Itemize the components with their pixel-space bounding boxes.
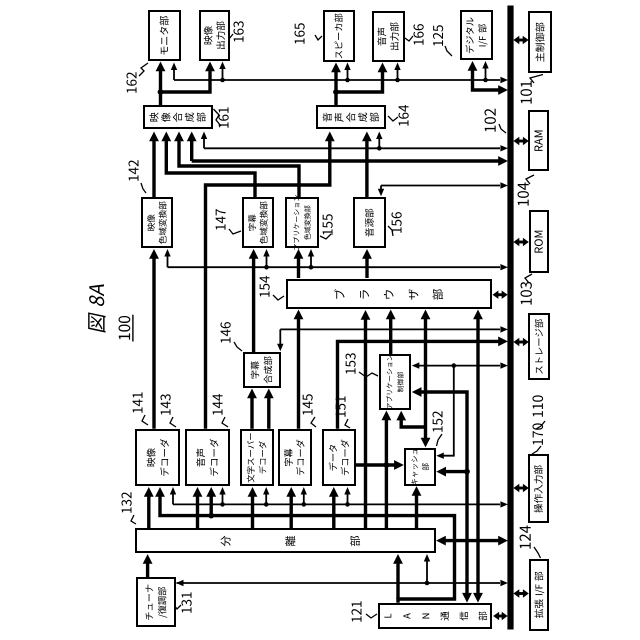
- bus double arrow to storage: [518, 341, 524, 344]
- wire branch appctl-bus line to cache bottom: [441, 366, 454, 456]
- block cache 152: [404, 448, 436, 486]
- leader 141: [142, 415, 148, 425]
- reference numeral 156: [392, 227, 402, 232]
- reference numeral 164: [399, 120, 409, 125]
- leader 162: [139, 63, 148, 76]
- block app color conv 155: [285, 197, 319, 249]
- junction dot on thin compositor line: [377, 146, 382, 151]
- wire bus to sound source right edge (thin): [381, 185, 500, 187]
- wire data decoder to cache: [356, 463, 398, 466]
- wire subtitle decoder to browser: [297, 316, 300, 429]
- reference numeral 163: [234, 36, 244, 41]
- block tuner 131: [136, 578, 176, 628]
- wire sound source to audio compositor: [365, 138, 368, 197]
- wire browser to app color conversion: [297, 255, 300, 278]
- wire bus to output devices (line L1): [174, 79, 500, 81]
- text of main controller 101: [535, 53, 544, 62]
- block speaker 165: [323, 11, 356, 63]
- bus double arrow to ROM: [518, 241, 524, 244]
- wire branch line B to decoder: [222, 493, 224, 504]
- junction dot on line B: [220, 502, 225, 507]
- leader 154: [273, 295, 284, 300]
- text of video output 163: [204, 36, 213, 45]
- wire demux to data decoder: [332, 494, 335, 529]
- bus double arrow to main controller: [518, 39, 523, 42]
- bus double arrow to LAN comm: [498, 615, 503, 618]
- wire branch L2 to subtitle color conversion: [266, 255, 268, 267]
- reference numeral 166: [414, 39, 424, 44]
- wire demux to text-super decoder: [251, 494, 254, 529]
- block operation input 110: [528, 455, 548, 524]
- wire audio decoder to audio compositor: [206, 138, 330, 429]
- block extension I/F 124: [529, 559, 550, 631]
- leader 110: [536, 421, 545, 429]
- wire branch LAN line to demux input: [396, 561, 399, 599]
- wire bus to color conversion blocks (line L2): [168, 266, 501, 268]
- reference numeral 145: [303, 409, 313, 414]
- wire branch line B to decoder: [303, 493, 305, 504]
- bus double arrow to operation input: [518, 487, 524, 490]
- reference numeral 124: [520, 543, 531, 549]
- leader 156: [388, 226, 393, 236]
- block monitor 162: [148, 11, 182, 62]
- wire branch line B to decoder: [347, 493, 349, 504]
- text of text-super decoder 144: [247, 475, 255, 483]
- block demux 132: [135, 529, 435, 554]
- leader 153: [359, 372, 378, 377]
- text of video color conv 142: [147, 223, 155, 231]
- block LAN comm 121: [378, 603, 492, 629]
- wire tuner to demux: [146, 561, 149, 578]
- wire LAN to demux and AV decoders (line A): [160, 494, 455, 603]
- leader 142: [141, 183, 146, 193]
- text of app color conv 155: [294, 244, 299, 250]
- junction dot L2 app branch: [309, 265, 314, 270]
- wire video decoder to video color conversion: [152, 255, 155, 429]
- junction dot on LAN-appctl line at cache branch: [464, 469, 470, 475]
- wire branch L1 to output block: [347, 69, 349, 81]
- reference numeral 155: [323, 229, 333, 234]
- text of cache 152: [411, 479, 417, 485]
- wire data decoder to bus: [338, 341, 501, 428]
- wire demux to bus bidirectional: [442, 539, 501, 542]
- wire cache to browser bidirectional: [424, 316, 427, 442]
- text of ROM: [535, 247, 543, 253]
- block browser 154: [286, 280, 493, 310]
- leader 104: [526, 175, 534, 184]
- junction dot on line L1: [483, 78, 488, 83]
- leader 103: [525, 274, 532, 283]
- reference numeral 131: [182, 607, 192, 612]
- wire demux to browser: [364, 317, 367, 529]
- reference numeral 102: [485, 126, 496, 132]
- reference numeral 144: [213, 409, 223, 414]
- figure title 図 8A: [88, 312, 105, 332]
- wire LAN to application controller and cache: [418, 392, 467, 596]
- text of tuner 131: [145, 612, 152, 620]
- leader 152: [437, 434, 443, 446]
- reference numeral 162: [127, 87, 137, 92]
- leader 161: [214, 109, 222, 126]
- text of subtitle color conv 147: [248, 223, 256, 230]
- text of video decoder 141: [147, 458, 156, 467]
- junction dot on line L1: [220, 78, 225, 83]
- wire digital I/F to bus bidirectional: [473, 68, 501, 90]
- reference numeral 141: [133, 407, 143, 412]
- wire app color conversion to video compositor: [179, 138, 299, 197]
- text of storage 103: [536, 366, 543, 373]
- text of speaker 165: [336, 51, 343, 58]
- reference numeral 103: [521, 299, 532, 305]
- block audio compositor 164: [316, 105, 386, 130]
- block storage 103: [528, 314, 550, 381]
- leader 144: [222, 417, 228, 427]
- junction dot on line L1: [395, 78, 400, 83]
- block audio decoder 143: [185, 429, 230, 487]
- reference numeral 110: [533, 411, 543, 417]
- wire bus to application controller (thin): [418, 365, 500, 367]
- wire branch to video output: [161, 68, 211, 92]
- wire demux to cache: [415, 492, 418, 529]
- wire video color conversion to video compositor: [152, 138, 155, 197]
- leader 131: [174, 605, 181, 609]
- wire application controller tap to cache-browser line: [401, 417, 425, 427]
- block video compositor 161: [143, 105, 213, 130]
- leader 166: [405, 36, 413, 41]
- reference numeral 152: [433, 426, 443, 431]
- block audio output 166: [372, 11, 405, 62]
- wire branch L1 to output block: [485, 67, 487, 80]
- text of subtitle decoder 145: [284, 458, 292, 466]
- wire branch L1 to output block: [222, 68, 224, 81]
- wire branch tuner line to demux left edge: [426, 560, 428, 583]
- leader 145: [311, 417, 316, 427]
- leader 170: [532, 446, 541, 454]
- reference numeral 153: [346, 368, 356, 373]
- wire branch line A to audio decoder: [209, 494, 212, 516]
- wire demux to application controller: [385, 417, 388, 529]
- junction dot on line B: [302, 502, 307, 507]
- text of RAM: [534, 145, 542, 151]
- reference numeral 132: [122, 507, 132, 512]
- reference numeral 101: [521, 98, 532, 104]
- bus double arrow to browser: [497, 293, 502, 296]
- leader 147: [229, 229, 241, 234]
- reference numeral 147: [216, 224, 226, 229]
- system bus 102: [507, 6, 513, 630]
- text of data decoder 151: [329, 462, 337, 470]
- wire branch L2 to app color conversion: [310, 255, 312, 267]
- leader 132: [131, 515, 136, 524]
- wire bus to all decoders (line B): [173, 503, 500, 505]
- text of extension I/F 124: [534, 609, 543, 618]
- text of audio decoder 143: [196, 458, 205, 467]
- block text-super decoder 144: [240, 429, 274, 487]
- wire branch L1 to output block: [397, 69, 399, 81]
- reference numeral 165: [295, 38, 305, 43]
- block video output 163: [199, 10, 230, 61]
- block subtitle decoder 145: [278, 429, 312, 487]
- wire branch to audio output: [336, 69, 383, 92]
- wire branch line B to decoder: [265, 493, 267, 504]
- text of browser 154: [334, 289, 344, 299]
- wire bus to subtitle compositor (thin): [279, 329, 281, 345]
- leader 102: [499, 124, 506, 133]
- wire bus to video and audio compositors (thin line): [204, 147, 500, 149]
- reference numeral 154: [260, 291, 270, 296]
- block digital I/F 125: [460, 11, 493, 61]
- wire application controller to browser: [389, 318, 392, 354]
- wire subtitle decoder to subtitle compositor: [267, 395, 270, 429]
- text of application controller 153: [387, 403, 392, 409]
- leader 124: [534, 547, 541, 558]
- reference numeral 143: [161, 409, 171, 414]
- leader 164: [388, 116, 398, 121]
- junction dot on line B: [345, 502, 350, 507]
- bus double arrow to RAM: [518, 140, 524, 143]
- text of LAN comm 121: [384, 614, 391, 618]
- text of digital I/F 125: [465, 45, 473, 53]
- leader 146: [234, 342, 242, 351]
- text of subtitle compositor 146: [251, 371, 259, 379]
- wire audio compositor to speaker: [334, 69, 337, 105]
- block RAM: [528, 110, 548, 171]
- block data decoder 151: [322, 429, 356, 487]
- reference numeral 146: [221, 337, 231, 342]
- junction dot video output branch: [158, 89, 164, 95]
- wire demux to subtitle decoder: [290, 494, 293, 529]
- wire branch thin line to audio compositor: [378, 137, 380, 148]
- reference numeral 142: [129, 175, 139, 180]
- reference numeral 151: [336, 411, 346, 416]
- text of operation input 110: [534, 504, 543, 513]
- leader 125: [445, 46, 452, 56]
- text of audio output 166: [377, 37, 386, 46]
- block ROM: [529, 210, 549, 274]
- wire subtitle color conversion to video compositor: [166, 138, 255, 197]
- block subtitle color conv 147: [242, 197, 274, 249]
- reference numeral 161: [219, 122, 229, 127]
- wire branch to cache bottom: [441, 470, 467, 473]
- leader 151: [345, 419, 350, 428]
- junction dot data-decoder line crossing demux-appctl line: [384, 462, 390, 468]
- block video color conv 142: [141, 197, 173, 249]
- wire bus to video compositor (thick riser): [192, 159, 500, 162]
- wire browser to sound source: [365, 255, 368, 278]
- wire bus to tuner (thin) with branch to demux: [177, 582, 501, 584]
- text of sound source 156: [365, 228, 374, 237]
- junction dot on appctl-bus line: [452, 363, 457, 368]
- reference numeral system 100: [119, 333, 130, 339]
- block subtitle compositor 146: [243, 352, 281, 388]
- junction dot on tuner line: [425, 581, 430, 586]
- block video decoder 141: [135, 429, 180, 487]
- reference numeral 104: [518, 200, 529, 206]
- reference numeral 121: [352, 616, 362, 621]
- wire text-super decoder to subtitle compositor: [250, 395, 253, 429]
- reference numeral 125: [433, 40, 443, 45]
- wire subtitle compositor to subtitle color conversion: [252, 255, 255, 352]
- leader 163: [224, 34, 233, 39]
- text of demux 132: [221, 536, 231, 546]
- wire demux to audio decoder: [196, 494, 199, 529]
- junction dot on line B: [264, 502, 269, 507]
- bus double arrow to extension I/F: [518, 592, 524, 595]
- leader 165: [315, 35, 322, 40]
- wire LAN to browser bidirectional: [476, 318, 479, 596]
- junction dot audio output branch: [333, 89, 339, 95]
- block application controller 153: [379, 354, 412, 410]
- leader 121: [366, 614, 377, 618]
- leader 143: [170, 417, 176, 427]
- text of monitor 162: [161, 47, 168, 55]
- wire demux to video decoder: [147, 494, 150, 529]
- junction dot on line A at audio decoder branch: [208, 513, 214, 519]
- junction dot on line L1: [345, 78, 350, 83]
- block main controller 101: [528, 11, 552, 74]
- text of audio compositor 164: [323, 113, 332, 122]
- block sound source 156: [353, 197, 386, 249]
- wire video compositor to monitor: [159, 68, 162, 105]
- text of video compositor 161: [149, 113, 158, 122]
- leader 155: [320, 234, 331, 239]
- junction dot L2 subtitle branch: [264, 265, 269, 270]
- reference numeral 170: [533, 439, 543, 445]
- leader 101: [530, 75, 543, 84]
